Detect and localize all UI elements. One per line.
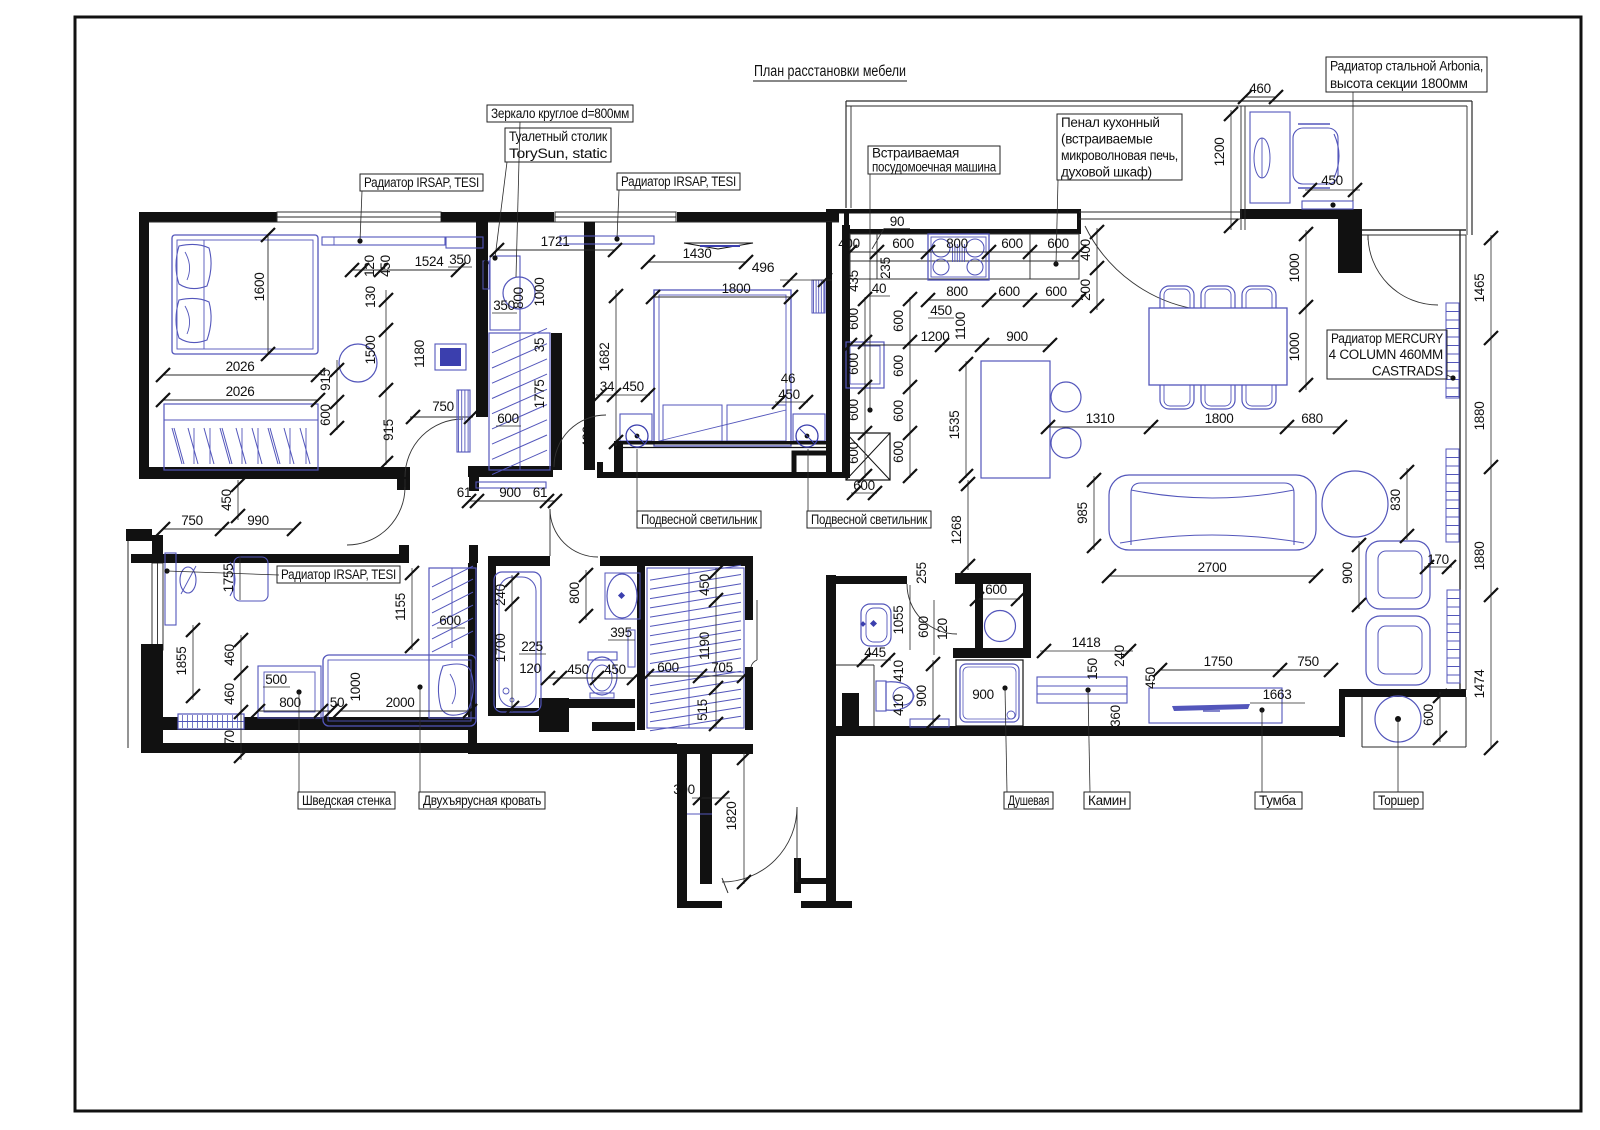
- kitchen counter: [850, 234, 1079, 279]
- tv stand tumba: [1149, 688, 1282, 723]
- svg-text:Камин: Камин: [1088, 793, 1126, 808]
- svg-text:800: 800: [946, 284, 968, 299]
- svg-text:Радиатор IRSAP, TESI: Радиатор IRSAP, TESI: [364, 175, 479, 190]
- svg-text:Подвесной светильник: Подвесной светильник: [641, 512, 757, 527]
- svg-text:600: 600: [985, 582, 1007, 597]
- ventilation shaft X-box: [846, 433, 890, 480]
- svg-text:435: 435: [846, 270, 861, 292]
- kids wardrobe hatched: [429, 568, 476, 718]
- radiator right wall 3: [1447, 590, 1460, 683]
- coffee table round: [1322, 471, 1388, 537]
- svg-text:600: 600: [846, 399, 861, 421]
- svg-text:120: 120: [362, 255, 377, 277]
- living room niche top wall: [1339, 689, 1466, 697]
- svg-text:Встраиваемая: Встраиваемая: [872, 146, 959, 161]
- svg-text:TorySun, static: TorySun, static: [509, 146, 608, 161]
- right wall thin living room: [1459, 230, 1461, 690]
- svg-text:600: 600: [998, 284, 1020, 299]
- label pendant light 2: [807, 511, 931, 528]
- svg-text:600: 600: [1421, 704, 1436, 726]
- svg-text:235: 235: [878, 257, 893, 279]
- svg-text:600: 600: [439, 613, 461, 628]
- svg-text:2026: 2026: [226, 384, 255, 399]
- svg-text:990: 990: [247, 513, 269, 528]
- svg-text:400: 400: [838, 236, 860, 251]
- pillow 2: [176, 298, 211, 342]
- label radiator IRSAP 2: [617, 173, 740, 190]
- dressing table: [490, 256, 520, 330]
- dressing wardrobe hatched: [489, 333, 550, 470]
- wall notch dressing doorway: [397, 467, 410, 490]
- kids room bottom wall: [162, 717, 477, 730]
- svg-text:1155: 1155: [393, 593, 408, 621]
- svg-text:1200: 1200: [1212, 138, 1227, 167]
- pillow 1: [176, 244, 211, 288]
- svg-text:1190: 1190: [697, 632, 712, 660]
- bathroom toilet: [588, 652, 617, 660]
- sliding door track closet: [476, 482, 546, 488]
- svg-text:150: 150: [1085, 658, 1100, 680]
- svg-text:515: 515: [695, 699, 710, 721]
- bathroom inner step walls: [539, 698, 569, 732]
- bedroom1 bottom wall: [139, 467, 410, 479]
- swedish wall unit: [258, 666, 321, 718]
- svg-text:985: 985: [1075, 502, 1090, 524]
- bathroom1 counter lines: [836, 664, 874, 666]
- loggia chair: [1293, 128, 1338, 184]
- door arc living room: [1368, 235, 1438, 305]
- door arc entry: [722, 807, 797, 882]
- svg-text:2700: 2700: [1198, 560, 1227, 575]
- wall pier between windows: [441, 212, 554, 222]
- label radiator MERCURY: [1327, 330, 1447, 379]
- svg-text:1430: 1430: [683, 246, 712, 261]
- svg-text:Радиатор IRSAP, TESI: Радиатор IRSAP, TESI: [281, 567, 396, 582]
- svg-text:2026: 2026: [226, 359, 255, 374]
- bathroom sink: [607, 574, 637, 618]
- svg-text:1055: 1055: [891, 606, 906, 635]
- label tumba: [1255, 792, 1302, 809]
- dim 1524 chain bedroom1 top: [352, 269, 458, 271]
- label bunk bed: [419, 792, 545, 809]
- svg-text:План расстановки мебели: План расстановки мебели: [754, 63, 906, 80]
- door arc bedroom2: [554, 415, 606, 467]
- loggia radiator: [1302, 201, 1353, 209]
- mirror round d800: [503, 277, 535, 309]
- svg-text:496: 496: [752, 259, 775, 275]
- entry door jamb bar: [794, 858, 801, 893]
- svg-text:1755: 1755: [221, 564, 236, 593]
- label dressing table: [505, 128, 611, 162]
- floor lamp: [1375, 696, 1421, 742]
- kids radiator on south wall: [178, 714, 244, 729]
- svg-text:600: 600: [846, 308, 861, 330]
- entry right step wall: [801, 878, 828, 884]
- nightstand left: [620, 414, 652, 441]
- bathroom niche: [628, 630, 635, 667]
- svg-text:450: 450: [567, 662, 589, 677]
- kids room left wall lower: [141, 644, 163, 753]
- entry hall right wall: [826, 575, 836, 908]
- svg-text:(встраиваемые: (встраиваемые: [1061, 132, 1153, 147]
- svg-text:750: 750: [432, 399, 454, 414]
- svg-text:600: 600: [846, 353, 861, 375]
- bathroom top wall left part: [488, 556, 550, 566]
- svg-text:Подвесной светильник: Подвесной светильник: [811, 512, 927, 527]
- svg-text:1800: 1800: [722, 281, 751, 296]
- svg-text:450: 450: [1321, 173, 1343, 188]
- kids room left wall upper: [152, 535, 163, 563]
- svg-text:Туалетный столик: Туалетный столик: [509, 129, 607, 144]
- loggia glazing outline: [846, 100, 1472, 102]
- svg-text:830: 830: [1388, 489, 1403, 511]
- svg-text:1100: 1100: [953, 312, 968, 340]
- entry bottom-right corner wall: [801, 901, 852, 908]
- door arc kitchen: [1085, 226, 1201, 310]
- radiator bedroom2 right wall: [812, 280, 825, 313]
- wall L top right: [1240, 209, 1362, 219]
- dining chairs top row: [1160, 286, 1194, 318]
- svg-text:1600: 1600: [252, 273, 267, 302]
- svg-text:4 COLUMN 460MM: 4 COLUMN 460MM: [1329, 347, 1443, 362]
- svg-text:Пенал кухонный: Пенал кухонный: [1061, 115, 1160, 130]
- stove: [928, 234, 989, 280]
- svg-text:Радиатор стальной Arbonia,: Радиатор стальной Arbonia,: [1330, 59, 1483, 74]
- label radiator IRSAP 3 kids: [277, 566, 400, 583]
- svg-text:900: 900: [972, 687, 994, 702]
- svg-text:395: 395: [610, 625, 632, 640]
- closet hatched wardrobe: [647, 568, 744, 728]
- svg-text:Тумба: Тумба: [1259, 793, 1296, 808]
- bedroom2 bottom-right pillar outline: [794, 453, 829, 475]
- wall dressing-bedroom2: [584, 222, 595, 470]
- svg-text:600: 600: [916, 616, 931, 638]
- svg-text:900: 900: [914, 685, 929, 707]
- svg-text:61: 61: [457, 485, 471, 500]
- bathroom1 corner shaft: [842, 693, 859, 727]
- svg-text:120: 120: [519, 661, 541, 676]
- step wall left corridor: [126, 529, 152, 541]
- svg-text:1200: 1200: [921, 329, 950, 344]
- svg-text:1775: 1775: [532, 380, 547, 409]
- bathroom bottom wall: [488, 708, 539, 716]
- bathroom left wall: [488, 565, 496, 715]
- bed double bedroom1: [172, 235, 318, 354]
- entry bottom-left corner wall: [677, 901, 722, 908]
- wall bedroom2 right: [826, 222, 832, 475]
- label kitchen pencil cabinet: [1057, 114, 1182, 180]
- svg-text:1465: 1465: [1472, 274, 1487, 303]
- shower tray: [956, 660, 1023, 726]
- svg-text:600: 600: [891, 355, 906, 377]
- svg-text:900: 900: [1340, 562, 1355, 584]
- wardrobe bedroom1 hatched: [164, 404, 318, 470]
- washing machine: [985, 611, 1016, 642]
- label radiator Arbonia: [1326, 57, 1487, 92]
- svg-text:высота секции 1800мм: высота секции 1800мм: [1330, 76, 1468, 91]
- svg-text:600: 600: [657, 660, 679, 675]
- svg-text:1663: 1663: [1263, 687, 1292, 702]
- svg-text:1682: 1682: [597, 343, 612, 372]
- niche thin outline: [1361, 697, 1363, 747]
- kitchen island: [981, 361, 1050, 478]
- door leaf closet right: [756, 600, 758, 660]
- svg-text:200: 200: [1078, 279, 1093, 301]
- svg-text:1000: 1000: [1287, 254, 1302, 283]
- svg-text:460: 460: [222, 683, 237, 705]
- kids mirror: [180, 567, 196, 593]
- wall bedroom1-dressing: [476, 212, 488, 417]
- svg-text:1535: 1535: [947, 411, 962, 440]
- svg-text:300: 300: [673, 782, 695, 797]
- armchair 1: [1366, 541, 1430, 609]
- kitchen top wall hollow band: [826, 209, 1081, 214]
- kids desk chair: [234, 557, 268, 601]
- svg-text:800: 800: [946, 236, 968, 251]
- dim 61 900 61 closet sliding door: [469, 500, 555, 502]
- svg-text:450: 450: [1143, 667, 1158, 689]
- dims bedroom2: [648, 261, 746, 263]
- svg-text:600: 600: [1047, 236, 1069, 251]
- svg-text:61: 61: [533, 485, 547, 500]
- svg-text:450: 450: [622, 379, 644, 394]
- living room corner step wall: [1339, 689, 1345, 737]
- label fireplace: [1084, 792, 1130, 809]
- svg-text:1750: 1750: [1204, 654, 1233, 669]
- svg-text:460: 460: [1249, 81, 1271, 96]
- dim 1600 bed bedroom1: [267, 235, 269, 354]
- svg-text:680: 680: [1301, 411, 1323, 426]
- svg-text:90: 90: [890, 214, 904, 229]
- loggia desk: [1250, 112, 1290, 203]
- wall dressing stub: [551, 333, 562, 470]
- svg-text:Радиатор IRSAP, TESI: Радиатор IRSAP, TESI: [621, 174, 736, 189]
- curtain pelmet bedroom2: [684, 243, 753, 249]
- kitchen tall cabinet: [846, 342, 884, 388]
- svg-text:2000: 2000: [386, 695, 415, 710]
- bed bedroom2: [654, 290, 791, 446]
- pendant light right: [796, 425, 818, 447]
- svg-text:1500: 1500: [363, 336, 378, 365]
- kitchen door opening lines: [1079, 211, 1240, 213]
- svg-text:600: 600: [891, 400, 906, 422]
- closet right wall lower: [745, 667, 753, 730]
- bathroom1 top-right wall: [955, 573, 1031, 584]
- shelf near toilet: [910, 719, 949, 727]
- bathroom1 top wall: [828, 576, 907, 584]
- svg-text:1268: 1268: [949, 516, 964, 545]
- corridor wall left outer: [677, 752, 687, 908]
- wall kitchen left: [842, 225, 850, 478]
- bathroom1 sink: [861, 604, 891, 646]
- wall top bedroom2-kitchen segment: [677, 212, 839, 222]
- svg-text:915: 915: [318, 369, 333, 391]
- apartment bottom wall center: [827, 726, 1339, 736]
- pouf bedroom1: [339, 344, 377, 382]
- svg-text:40: 40: [872, 281, 886, 296]
- svg-text:600: 600: [1045, 284, 1067, 299]
- svg-text:Шведская стенка: Шведская стенка: [302, 793, 392, 808]
- kids room top wall: [131, 554, 399, 563]
- svg-text:600: 600: [1001, 236, 1023, 251]
- label dishwasher: [868, 146, 1000, 174]
- bathroom1 right wall: [1023, 573, 1031, 658]
- svg-text:410: 410: [891, 694, 906, 716]
- svg-text:600: 600: [846, 442, 861, 464]
- corridor wall left inner: [700, 745, 712, 884]
- bedroom2 bottom wall: [597, 472, 842, 478]
- svg-text:800: 800: [279, 695, 301, 710]
- label radiator IRSAP 1: [360, 174, 483, 191]
- svg-text:Торшер: Торшер: [1378, 793, 1419, 808]
- svg-text:1880: 1880: [1472, 542, 1487, 571]
- tv unit bedroom1: [435, 344, 466, 370]
- svg-text:915: 915: [381, 419, 396, 441]
- nightstand right: [793, 414, 825, 441]
- washer niche bottom wall: [953, 648, 1031, 658]
- svg-text:1418: 1418: [1072, 635, 1101, 650]
- svg-text:Душевая: Душевая: [1008, 793, 1049, 808]
- svg-text:1880: 1880: [1472, 402, 1487, 431]
- dim chain 1310 1800 680: [1048, 426, 1340, 428]
- svg-text:170: 170: [222, 730, 237, 752]
- kids room window left: [152, 563, 163, 650]
- radiator right wall 2: [1446, 449, 1459, 542]
- svg-text:900: 900: [499, 485, 521, 500]
- radiator window W2: [560, 236, 654, 244]
- window W2 bedroom2: [555, 212, 676, 222]
- radiator window bedroom1: [322, 237, 445, 245]
- svg-text:450: 450: [930, 303, 952, 318]
- svg-text:350: 350: [449, 252, 471, 267]
- svg-text:Зеркало круглое d=800мм: Зеркало круглое d=800мм: [491, 106, 629, 121]
- svg-text:1820: 1820: [724, 802, 739, 831]
- svg-text:600: 600: [891, 441, 906, 463]
- svg-text:600: 600: [892, 236, 914, 251]
- svg-text:600: 600: [891, 310, 906, 332]
- svg-text:Радиатор MERCURY: Радиатор MERCURY: [1331, 331, 1443, 346]
- label swedish wall: [298, 792, 395, 809]
- sofa: [1109, 475, 1316, 550]
- svg-text:1474: 1474: [1472, 669, 1487, 699]
- bunk bed kids: [323, 655, 476, 726]
- bathroom1 toilet: [876, 681, 886, 711]
- svg-text:посудомоечная машина: посудомоечная машина: [872, 160, 997, 175]
- dims loggia: [1245, 96, 1276, 98]
- inner face line of top wall: [149, 221, 839, 223]
- label pendant light 1: [637, 511, 761, 528]
- pendant light left: [626, 425, 648, 447]
- wall under loggia right part: [1362, 229, 1466, 231]
- left facade thin line: [127, 541, 129, 748]
- label shower: [1004, 792, 1053, 809]
- label mirror round: [487, 105, 633, 122]
- dining table: [1149, 308, 1287, 385]
- dim 2026 lines: [163, 374, 318, 376]
- wall left bedroom1: [139, 212, 149, 479]
- svg-text:35: 35: [532, 338, 547, 352]
- bed footboard panels: [663, 405, 722, 441]
- window bench bedroom1: [446, 237, 483, 248]
- svg-text:1000: 1000: [348, 673, 363, 702]
- bathtub: [494, 572, 541, 712]
- svg-text:Двухъярусная кровать: Двухъярусная кровать: [423, 793, 541, 808]
- svg-text:500: 500: [265, 672, 287, 687]
- svg-text:800: 800: [511, 287, 526, 309]
- kids desk: [165, 553, 176, 625]
- svg-text:800: 800: [567, 582, 582, 604]
- door arc bedroom1-dressing: [405, 419, 463, 477]
- entry threshold lines: [722, 878, 728, 893]
- door arc dressing to corridor: [347, 487, 405, 545]
- svg-text:1000: 1000: [1287, 333, 1302, 362]
- svg-text:225: 225: [521, 639, 543, 654]
- svg-text:1180: 1180: [412, 340, 427, 368]
- svg-text:46: 46: [781, 371, 795, 386]
- svg-text:750: 750: [181, 513, 203, 528]
- svg-text:духовой шкаф): духовой шкаф): [1061, 165, 1152, 180]
- closet bottom wall bedroom2: [468, 466, 553, 477]
- bunk bed pillow: [438, 664, 473, 715]
- svg-text:1855: 1855: [174, 647, 189, 676]
- svg-text:600: 600: [497, 411, 519, 426]
- blue line channel: [687, 813, 712, 815]
- svg-text:1310: 1310: [1086, 411, 1115, 426]
- washer niche left wall: [975, 584, 983, 651]
- svg-text:750: 750: [1297, 654, 1319, 669]
- kids room right wall: [468, 563, 477, 753]
- svg-text:400: 400: [1078, 239, 1093, 261]
- shelf right wall bedroom1: [457, 390, 470, 452]
- loggia divider: [1240, 106, 1242, 230]
- svg-text:450: 450: [378, 255, 393, 277]
- svg-text:1000: 1000: [532, 278, 547, 307]
- dining chairs bottom row: [1160, 377, 1194, 409]
- svg-text:1524: 1524: [415, 254, 445, 269]
- svg-text:1800: 1800: [1205, 411, 1234, 426]
- window W1 bedroom1: [277, 212, 441, 222]
- svg-text:255: 255: [914, 562, 929, 584]
- bedroom2 bottom-left pillar: [614, 441, 623, 478]
- svg-text:900: 900: [1006, 329, 1028, 344]
- door arc bathroom: [550, 509, 598, 557]
- radiator right wall 1: [1446, 303, 1459, 398]
- fireplace: [1037, 677, 1127, 703]
- svg-text:360: 360: [1108, 705, 1123, 727]
- svg-text:120: 120: [935, 618, 950, 640]
- bench dark bar bedroom2: [616, 441, 828, 445]
- svg-text:240: 240: [1112, 645, 1127, 667]
- armchair 2: [1366, 616, 1430, 685]
- svg-text:400: 400: [580, 426, 595, 448]
- wall pillar right of kitchen door: [1338, 219, 1362, 273]
- bathroom right wall: [637, 566, 645, 730]
- bathroom top wall right part: [600, 556, 753, 566]
- dims corridor 750 990: [163, 528, 294, 530]
- island stools: [1051, 382, 1081, 412]
- svg-text:705: 705: [711, 660, 733, 675]
- label floor lamp: [1374, 792, 1423, 809]
- svg-text:450: 450: [604, 662, 626, 677]
- door arc bathroom1 entry: [907, 584, 957, 634]
- wall under bathroom and closet: [468, 744, 753, 754]
- svg-text:130: 130: [363, 286, 378, 308]
- dim 1721 radiator W2: [497, 249, 615, 251]
- svg-text:1721: 1721: [541, 234, 570, 249]
- svg-text:1700: 1700: [493, 634, 508, 663]
- closet right wall upper: [745, 556, 753, 620]
- dressing radiator: [483, 261, 489, 289]
